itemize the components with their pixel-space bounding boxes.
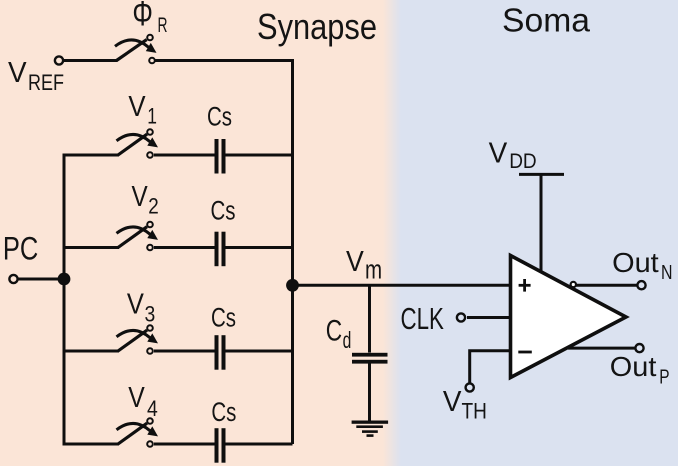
- capacitor Cs row3: [215, 335, 226, 370]
- node OutN tap: [571, 282, 576, 287]
- svg-text:V: V: [8, 57, 27, 89]
- svg-text:P: P: [659, 366, 669, 389]
- switch V4: [117, 418, 159, 447]
- wire row V1: [63, 154, 120, 157]
- svg-text:V: V: [489, 138, 508, 170]
- terminal CLK: [457, 313, 465, 321]
- svg-text:4: 4: [147, 396, 158, 421]
- wire Vref row: [64, 59, 118, 62]
- svg-text:V: V: [132, 181, 149, 213]
- wire Cd to ground: [368, 364, 371, 421]
- node Vm junction: [286, 279, 299, 292]
- wire row V2: [63, 246, 120, 249]
- svg-text:REF: REF: [28, 70, 64, 95]
- svg-text:Cs: Cs: [211, 196, 236, 226]
- wire row V3: [63, 350, 120, 353]
- terminal VTH: [466, 383, 474, 391]
- svg-text:V: V: [127, 288, 145, 320]
- node PC junction: [58, 273, 71, 286]
- wire Vm node to comparator: [293, 284, 511, 287]
- capacitor Cs row4: [215, 428, 226, 463]
- right bus wire: [291, 62, 294, 444]
- svg-text:Soma: Soma: [502, 2, 591, 39]
- left bus wire: [63, 157, 66, 445]
- svg-text:PC: PC: [3, 230, 38, 266]
- svg-text:3: 3: [145, 302, 156, 327]
- switch PHI_R: [115, 35, 157, 64]
- wire PC to bus: [18, 278, 64, 281]
- terminal PC: [9, 275, 17, 283]
- pin -: [518, 351, 532, 354]
- wire CLK to comparator: [467, 316, 510, 319]
- svg-text:Φ: Φ: [132, 0, 153, 33]
- svg-text:R: R: [158, 14, 168, 37]
- svg-text:TH: TH: [462, 398, 487, 423]
- capacitor Cd: [352, 353, 388, 364]
- capacitor Cs row2: [215, 232, 226, 267]
- svg-text:Out: Out: [612, 247, 659, 278]
- pin +: [519, 279, 531, 292]
- wire row V4: [63, 443, 120, 446]
- svg-text:CLK: CLK: [401, 301, 445, 336]
- svg-text:d: d: [343, 327, 352, 353]
- switch V1: [117, 129, 159, 158]
- wire minus input: [470, 351, 510, 383]
- wire Cd branch: [368, 285, 371, 352]
- switch V3: [117, 325, 159, 354]
- wire Vdd to comparator: [540, 174, 543, 272]
- svg-text:1: 1: [147, 104, 157, 129]
- wire OutP: [568, 347, 635, 350]
- svg-text:2: 2: [148, 194, 159, 219]
- svg-text:Out: Out: [610, 351, 657, 382]
- terminal OutP end: [635, 344, 643, 352]
- svg-text:N: N: [661, 261, 673, 284]
- switch V2: [117, 222, 159, 251]
- wire OutN: [576, 284, 637, 287]
- svg-text:V: V: [128, 382, 145, 414]
- wire Vdd bar: [519, 173, 564, 176]
- capacitor Cs row1: [215, 139, 226, 174]
- terminal OutN end: [637, 281, 645, 289]
- svg-text:Cs: Cs: [207, 101, 232, 131]
- svg-text:Cs: Cs: [211, 303, 236, 333]
- svg-text:V: V: [128, 91, 146, 123]
- svg-text:V: V: [346, 246, 364, 278]
- svg-text:Cs: Cs: [211, 397, 236, 427]
- svg-text:m: m: [365, 255, 382, 285]
- terminal Vref: [55, 56, 63, 64]
- svg-text:Synapse: Synapse: [257, 6, 377, 47]
- svg-text:V: V: [443, 386, 462, 418]
- ground: [352, 421, 389, 437]
- op-amp comparator U1: [511, 256, 627, 378]
- svg-text:C: C: [326, 315, 342, 348]
- svg-text:DD: DD: [509, 150, 537, 173]
